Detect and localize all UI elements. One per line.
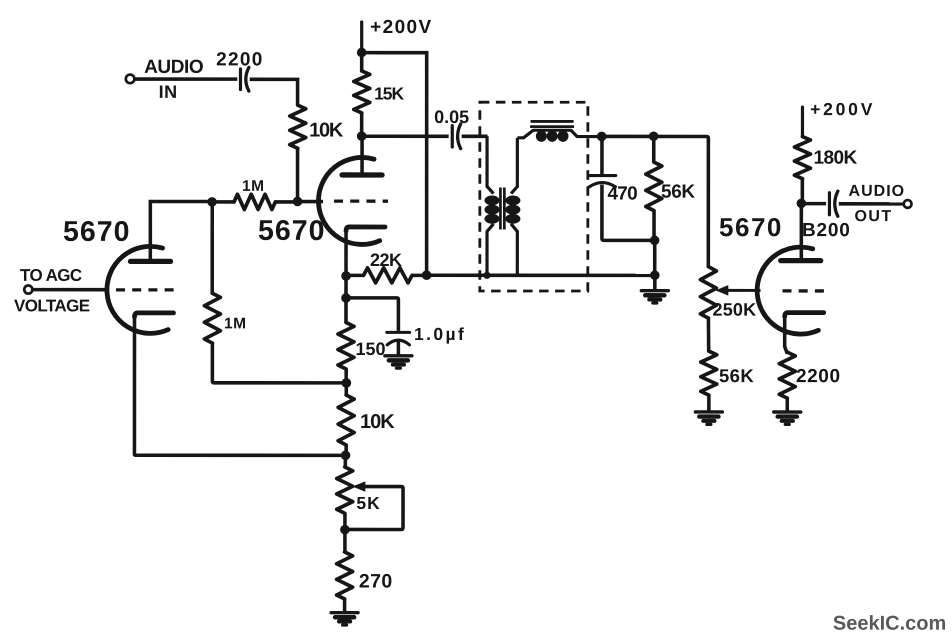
triode V2 plate	[342, 172, 382, 177]
wire 1.0uf to gnd	[397, 341, 401, 356]
wire 5K bottom lead	[343, 513, 347, 530]
capacitor 0.05	[452, 124, 460, 149]
wire gnd stem filter	[653, 275, 657, 290]
svg-text:+200V: +200V	[810, 99, 875, 119]
triode V2 cathode	[346, 227, 385, 231]
ground filter	[641, 291, 668, 303]
node G2 junction	[293, 197, 303, 207]
wire 22K leads	[346, 274, 427, 278]
wire C4 to out terminal	[839, 202, 904, 206]
svg-text:1M: 1M	[224, 315, 247, 332]
triode V1 plate	[131, 259, 171, 264]
label +200V left	[370, 17, 432, 38]
label 10K cathode	[360, 411, 395, 433]
svg-text:2200: 2200	[796, 366, 841, 387]
svg-text:1M: 1M	[242, 178, 265, 195]
svg-text:56K: 56K	[661, 182, 695, 203]
svg-text:VOLTAGE: VOLTAGE	[14, 296, 90, 315]
svg-text:10K: 10K	[309, 119, 344, 141]
triode V1 cathode	[135, 313, 174, 317]
svg-text:270: 270	[359, 570, 393, 592]
triode V3 envelope	[757, 247, 818, 334]
grid V2 dashed	[334, 200, 388, 203]
resistor 56K filter	[646, 162, 662, 211]
wire 1M-v top lead	[210, 202, 214, 294]
label 180K	[814, 148, 858, 169]
wire 180K bottom lead	[801, 179, 805, 204]
node 56K top junction	[649, 131, 659, 141]
capacitor B200 out	[829, 191, 837, 216]
resistor 10K grid	[290, 105, 306, 148]
label 270	[359, 570, 393, 592]
transformer T1 left winding	[484, 136, 499, 275]
resistor 180K	[794, 137, 810, 179]
svg-text:150: 150	[355, 339, 385, 359]
wire 2200 gnd lead	[785, 398, 789, 412]
wire C1 to R 10K	[250, 79, 298, 105]
wire bypass branch	[346, 298, 398, 331]
svg-text:AUDIO: AUDIO	[849, 183, 906, 200]
label +200V right	[810, 99, 875, 119]
ground 270	[331, 613, 358, 625]
label AUDIO IN	[144, 57, 203, 102]
svg-text:10K: 10K	[360, 411, 395, 433]
grid V3 dashed	[783, 289, 826, 292]
svg-text:0.05: 0.05	[434, 107, 469, 127]
label 5670 V1	[63, 216, 130, 248]
wire +200V to screen line	[362, 53, 427, 276]
grid V1 dashed	[116, 288, 176, 291]
wire V3 cathode down	[785, 316, 788, 354]
svg-text:OUT: OUT	[855, 208, 893, 225]
triode V3 plate	[781, 258, 821, 263]
wire plate V1 top	[150, 201, 212, 261]
capacitor 470	[589, 176, 616, 187]
triode V1 envelope	[107, 246, 168, 333]
svg-text:1.0µf: 1.0µf	[414, 324, 466, 344]
svg-text:22K: 22K	[370, 250, 402, 270]
wire 56K filter leads	[652, 136, 656, 240]
resistor 1M vertical	[204, 293, 220, 343]
svg-text:15K: 15K	[374, 83, 404, 103]
label 56K right	[719, 365, 754, 386]
svg-text:470: 470	[608, 184, 638, 205]
label 5K	[356, 493, 380, 513]
supply +200V right lead	[801, 107, 804, 137]
capacitor 2200 input	[240, 67, 248, 91]
label 2200 right	[796, 366, 841, 387]
watermark SeekIC.com	[833, 613, 946, 635]
triode V3 cathode	[785, 313, 824, 317]
svg-text:TO AGC: TO AGC	[20, 266, 82, 285]
wire audio-in to C1	[134, 77, 237, 81]
label 1M vertical	[224, 315, 247, 332]
node cathode bypass junction	[341, 293, 351, 303]
wiper arrow 5K	[354, 482, 365, 491]
wire top to 250K	[602, 136, 709, 266]
wire V2 cathode to 150	[344, 276, 348, 323]
wire 15K leads	[360, 52, 364, 136]
terminal TO AGC	[24, 285, 32, 293]
ground 2200	[774, 412, 801, 424]
wire filter bottom	[427, 274, 654, 278]
wire 470 top lead	[600, 136, 604, 174]
svg-text:180K: 180K	[814, 148, 858, 169]
capacitor 1.0uf	[387, 332, 410, 345]
wire 5K wiper loop	[345, 487, 403, 530]
wire 5K top lead	[344, 455, 348, 467]
label 22K	[370, 250, 402, 270]
label 5670 V2	[258, 215, 325, 247]
label 1M horizontal	[242, 178, 265, 195]
potentiometer 250K	[700, 267, 716, 319]
transformer T1 core	[500, 188, 504, 230]
transformer T1 right winding	[505, 138, 520, 275]
label 0.05	[434, 107, 469, 127]
label 10K grid	[309, 119, 344, 141]
terminal AUDIO IN	[126, 75, 135, 84]
node 5K bottom junction	[340, 525, 350, 535]
ground 56K right	[695, 412, 722, 424]
label 15K	[374, 83, 404, 103]
svg-text:IN: IN	[159, 82, 178, 102]
svg-text:5670: 5670	[258, 215, 325, 247]
resistor 10K cathode	[338, 395, 354, 445]
node 15K plate junction	[357, 131, 367, 141]
svg-text:5K: 5K	[356, 493, 380, 513]
node filter gnd junction	[650, 270, 660, 280]
node 22K right junction	[422, 270, 432, 280]
dashed filter box	[480, 102, 588, 291]
node plate V3 junction	[797, 199, 807, 209]
label 1.0uf	[414, 324, 466, 344]
svg-text:SeekIC.com: SeekIC.com	[833, 613, 946, 635]
resistor 15K	[354, 71, 370, 113]
node cathode 22K junction	[341, 271, 351, 281]
wire V2 plate lead	[360, 136, 364, 175]
label 150	[355, 339, 385, 359]
wire AGC to grid V1	[33, 288, 109, 292]
wire 150 bottom lead	[344, 369, 348, 383]
inductor L1 core	[530, 121, 574, 126]
label TO AGC	[14, 266, 90, 316]
wire V3 plate lead	[800, 203, 804, 260]
wire C2 to filter box	[462, 135, 488, 139]
svg-text:5670: 5670	[63, 216, 130, 248]
svg-text:2200: 2200	[216, 49, 263, 70]
inductor L1 winding	[517, 130, 601, 142]
wire 10K leads2	[344, 383, 348, 455]
resistor 2200 cathode	[779, 352, 795, 398]
wire 250K wiper to grid V3	[726, 289, 761, 292]
wire 56K right gnd lead	[707, 395, 711, 412]
ground 1.0uf	[385, 356, 412, 368]
wire 56K to bottom node	[653, 240, 657, 275]
wiper arrow 250K	[717, 286, 728, 295]
wire grid V2 entry	[298, 200, 324, 204]
wire V2 cathode down	[344, 230, 348, 276]
triode V2 envelope	[318, 157, 379, 244]
node filter out junction	[597, 132, 607, 142]
wire 10K to node G2	[296, 148, 300, 201]
label B200	[802, 220, 851, 241]
resistor 150	[338, 322, 354, 369]
label 5670 V3	[719, 212, 783, 242]
node T1 bottom junction	[483, 272, 490, 279]
wire 1M-v bottom lead	[212, 343, 346, 383]
wire 470 bottom lead	[602, 185, 655, 241]
wire 250K to 56K	[707, 318, 711, 351]
node 470 56K junction	[650, 236, 660, 246]
label 2200 input	[216, 49, 263, 70]
supply +200V left lead	[360, 22, 363, 52]
wire plate node to C2	[362, 134, 449, 138]
wire 270 leads	[343, 530, 347, 613]
wire 1M leads	[212, 200, 298, 204]
resistor 56K right	[701, 351, 717, 395]
node 150 10K junction	[342, 378, 352, 388]
svg-text:+200V: +200V	[370, 17, 432, 38]
resistor 270	[337, 552, 353, 599]
node feedback junction	[341, 451, 351, 461]
svg-text:250K: 250K	[713, 300, 757, 320]
resistor 1M horizontal	[234, 194, 275, 209]
svg-text:5670: 5670	[719, 212, 783, 242]
svg-text:56K: 56K	[719, 365, 754, 386]
label 56K filter	[661, 182, 695, 203]
resistor 22K	[364, 268, 413, 283]
svg-text:B200: B200	[802, 220, 851, 241]
node grid-bias junction	[207, 197, 217, 207]
label AUDIO OUT	[849, 183, 906, 225]
svg-text:AUDIO: AUDIO	[144, 57, 203, 78]
label 250K	[713, 300, 757, 320]
wire V1 cathode down	[134, 316, 345, 455]
label 470	[608, 184, 638, 205]
terminal AUDIO OUT	[904, 200, 912, 208]
node +200V junction	[357, 48, 367, 58]
wire plate node to C4	[801, 202, 826, 206]
potentiometer 5K	[337, 467, 353, 513]
